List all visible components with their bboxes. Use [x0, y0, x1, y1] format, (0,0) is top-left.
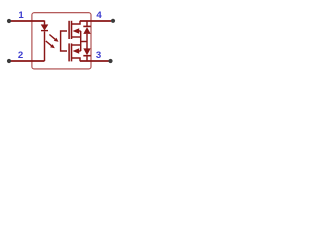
svg-text:2: 2	[18, 50, 23, 61]
body diode D2 bottom lead	[86, 34, 88, 42]
Q1 gate bar	[68, 21, 70, 39]
symbol body box U1	[32, 13, 91, 69]
Q2 drain contact	[71, 58, 80, 61]
Q2 channel bar	[71, 43, 73, 61]
Q2 source contact	[71, 44, 80, 46]
Q1 body lead	[77, 30, 81, 32]
Q2 body arrow	[73, 48, 80, 53]
LED D1 anode lead	[44, 21, 46, 25]
svg-text:1: 1	[18, 10, 24, 21]
svg-text:3: 3	[96, 50, 101, 61]
LED D1 cathode lead	[44, 31, 46, 61]
Q1 body arrow	[73, 28, 80, 33]
pin 4 dot	[111, 19, 115, 23]
pin 2 dot	[7, 59, 11, 63]
Q2 body lead	[77, 50, 81, 52]
body diode D2 triangle (up)	[83, 27, 90, 34]
light arrow 1	[49, 35, 58, 42]
body diode D3 bottom lead	[86, 56, 88, 61]
svg-text:4: 4	[96, 10, 102, 21]
LED D1 triangle	[41, 25, 48, 31]
Q1 source contact	[71, 36, 80, 38]
pin 3 dot	[108, 59, 112, 63]
pin 4 wire / top drain rail	[80, 20, 111, 22]
pin 2 wire	[10, 60, 45, 62]
Q1 channel bar	[71, 21, 73, 39]
pin 1 dot	[7, 19, 11, 23]
Q2 gate bar	[68, 43, 70, 61]
body diode D3 cathode bar	[83, 55, 90, 57]
body diode D2 top lead	[86, 21, 88, 27]
LED D1 cathode bar	[41, 30, 48, 32]
gate bus C-shape	[61, 31, 67, 51]
Q1 source/body down-lead	[80, 31, 82, 42]
pin 3 wire / bottom drain rail	[80, 60, 109, 62]
Q1 drain contact	[71, 21, 80, 24]
pin 1 wire	[10, 20, 45, 22]
Q2 source/body up-lead	[80, 42, 82, 52]
body diode D3 top lead	[86, 42, 88, 49]
body diode D2 cathode bar	[83, 25, 90, 27]
body diode D3 triangle (down)	[83, 48, 90, 55]
common source node wire	[81, 41, 87, 43]
background	[0, 0, 122, 82]
light arrow 2	[46, 41, 55, 48]
